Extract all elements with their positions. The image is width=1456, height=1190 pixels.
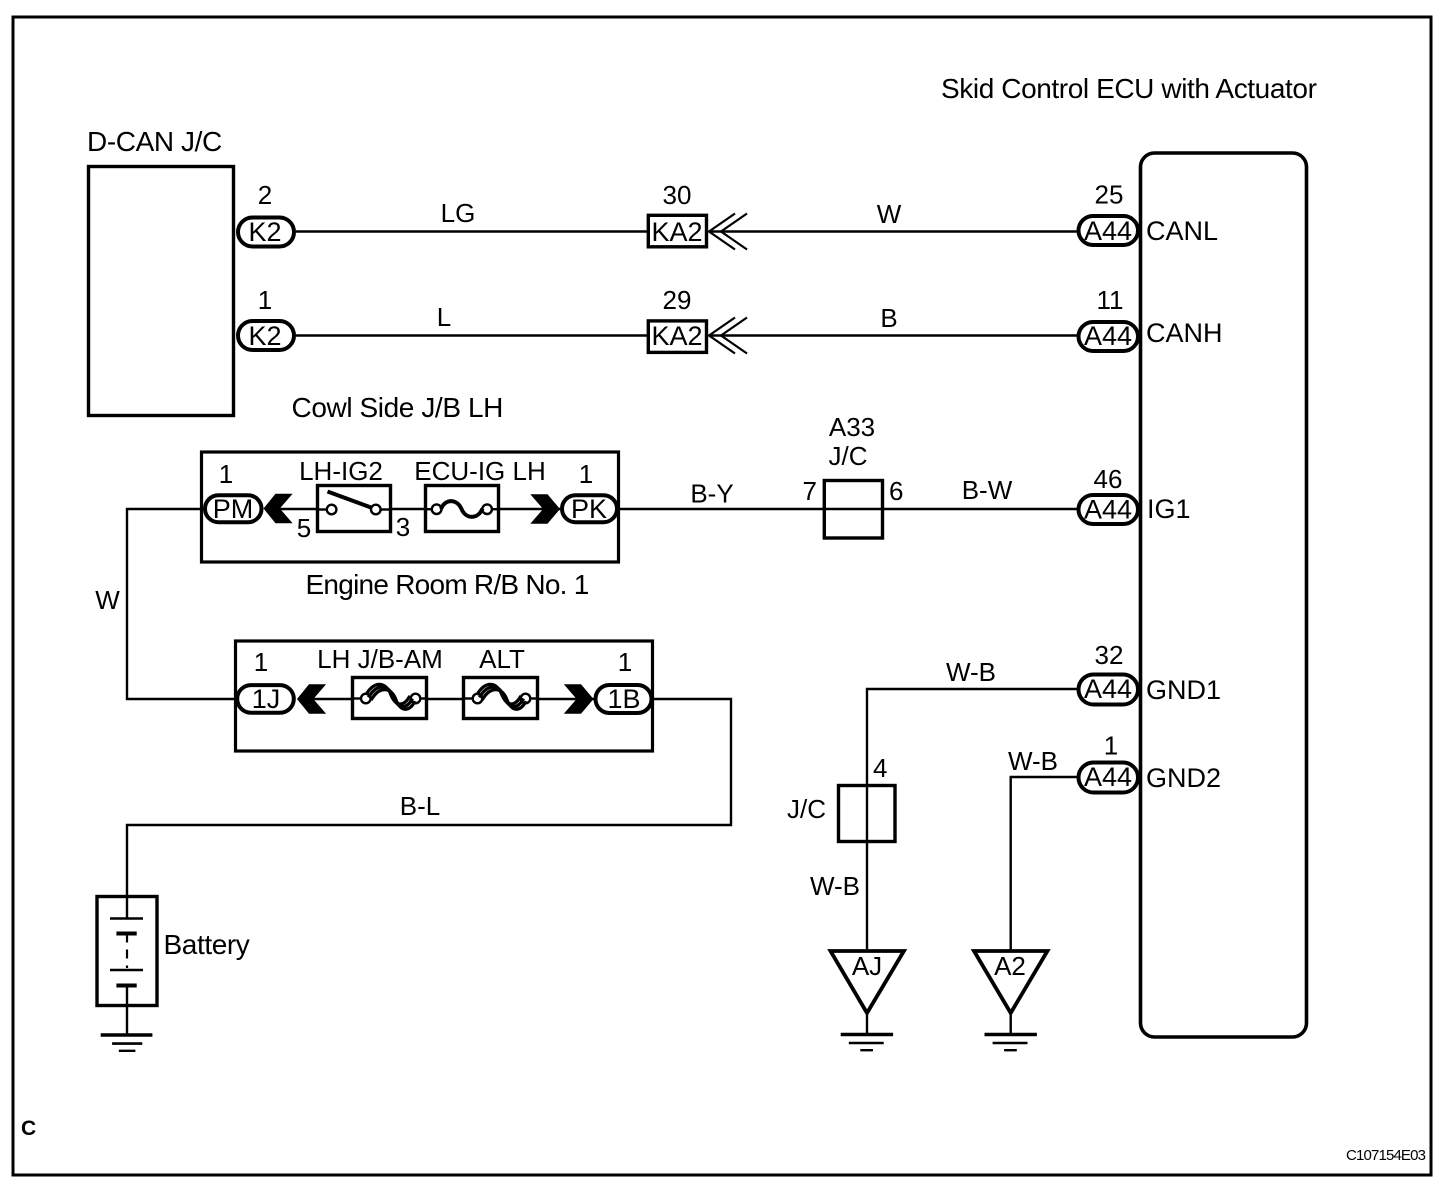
ECU U1 Skid Control ECU with Actuator — [941, 73, 1317, 1037]
svg-text:A2: A2 — [994, 951, 1026, 981]
connector KA2 pin 30 — [648, 180, 706, 247]
arrow out of J/B (right) — [530, 494, 560, 523]
svg-text:1: 1 — [1104, 731, 1118, 761]
battery BAT — [97, 896, 250, 1006]
svg-text:2: 2 — [258, 180, 272, 210]
svg-text:A44: A44 — [1084, 762, 1132, 792]
svg-text:KA2: KA2 — [651, 217, 702, 247]
junction block Cowl Side J/B LH — [202, 392, 619, 562]
svg-text:PM: PM — [213, 494, 254, 524]
ground (battery) — [101, 1035, 153, 1051]
svg-text:B-L: B-L — [400, 791, 440, 821]
svg-text:C: C — [21, 1117, 36, 1140]
svg-text:W-B: W-B — [1008, 746, 1058, 776]
svg-text:6: 6 — [889, 476, 903, 506]
svg-text:W: W — [95, 585, 120, 615]
svg-text:1J: 1J — [252, 684, 281, 714]
svg-text:11: 11 — [1097, 285, 1124, 315]
svg-text:A44: A44 — [1084, 495, 1132, 525]
svg-text:A44: A44 — [1084, 674, 1132, 704]
connector A44 pin 11 — [1079, 285, 1139, 351]
svg-text:LG: LG — [441, 198, 476, 228]
svg-text:IG1: IG1 — [1147, 494, 1191, 524]
svg-text:LH J/B-AM: LH J/B-AM — [317, 644, 443, 674]
svg-text:Cowl Side J/B LH: Cowl Side J/B LH — [292, 392, 503, 423]
svg-text:K2: K2 — [248, 321, 281, 351]
wire W-B from A44-1 to A2 ground — [1008, 746, 1077, 951]
svg-text:1: 1 — [219, 459, 233, 489]
connector 1B pin 1 — [596, 647, 652, 714]
wire B-Y from PK to A33 J/C — [618, 479, 824, 510]
svg-text:ECU-IG LH: ECU-IG LH — [414, 456, 545, 486]
svg-text:KA2: KA2 — [651, 321, 702, 351]
connector PK pin 1 — [562, 459, 617, 524]
svg-text:29: 29 — [663, 285, 692, 315]
connector KA2 pin 29 — [648, 285, 706, 352]
svg-text:Battery: Battery — [164, 929, 250, 960]
ground point AJ — [831, 951, 904, 1050]
wire W-B from J/C to AJ ground — [810, 843, 867, 951]
wire inside J/B row 1 — [280, 508, 560, 510]
svg-text:W-B: W-B — [810, 871, 860, 901]
svg-text:AJ: AJ — [852, 951, 882, 981]
svg-text:B-Y: B-Y — [690, 479, 733, 509]
svg-text:GND2: GND2 — [1146, 763, 1221, 793]
connector A44 pin 32 — [1079, 640, 1139, 705]
svg-text:ALT: ALT — [479, 644, 525, 674]
ground point A2 — [974, 951, 1047, 1050]
svg-text:5: 5 — [297, 513, 311, 543]
connector A44 pin 46 — [1079, 464, 1139, 525]
svg-text:7: 7 — [803, 476, 817, 506]
connector PM pin 1 — [205, 459, 262, 524]
wire B-L from 1B to Battery — [127, 699, 731, 896]
svg-text:30: 30 — [663, 180, 692, 210]
svg-text:1: 1 — [258, 285, 272, 315]
svg-text:J/C: J/C — [829, 441, 868, 471]
svg-text:L: L — [437, 302, 451, 332]
wire battery to ground — [126, 1006, 128, 1034]
svg-text:B-W: B-W — [962, 475, 1013, 505]
svg-text:A44: A44 — [1084, 216, 1132, 246]
inline connector arrows at KA2-30 — [709, 214, 747, 250]
svg-text:K2: K2 — [248, 217, 281, 247]
arrow out of R/B (right) — [564, 684, 594, 713]
junction connector A33 J/C — [824, 412, 884, 538]
connector K2 pin 1 — [238, 285, 294, 351]
svg-text:Skid Control ECU with Actuator: Skid Control ECU with Actuator — [941, 73, 1317, 104]
connector K2 pin 2 — [238, 180, 294, 247]
relay block Engine Room R/B No. 1 — [236, 569, 653, 751]
svg-text:C107154E03: C107154E03 — [1346, 1147, 1426, 1164]
switch LH-IG2 — [299, 456, 391, 532]
svg-text:Engine Room R/B No. 1: Engine Room R/B No. 1 — [306, 569, 589, 600]
svg-text:4: 4 — [873, 753, 887, 783]
svg-text:A44: A44 — [1084, 321, 1132, 351]
svg-text:B: B — [880, 303, 897, 333]
svg-text:1: 1 — [618, 647, 632, 677]
svg-text:GND1: GND1 — [1146, 675, 1221, 705]
wire L from K2-1 to KA2-29 — [296, 302, 648, 336]
connector A44 pin 25 — [1079, 180, 1139, 247]
wire LG from K2-2 to KA2-30 — [296, 198, 648, 232]
svg-text:1: 1 — [579, 459, 593, 489]
wire inside R/B — [313, 698, 594, 700]
svg-text:1: 1 — [254, 647, 268, 677]
svg-text:W: W — [877, 199, 902, 229]
arrow into R/B (left) — [297, 684, 326, 713]
svg-text:W-B: W-B — [946, 657, 996, 687]
svg-text:PK: PK — [571, 494, 607, 524]
wire W from KA2-30 to A44-25 — [709, 199, 1078, 232]
fusible link LH J/B-AM — [317, 644, 443, 719]
svg-text:3: 3 — [396, 512, 410, 542]
connector A44 pin 1 — [1079, 731, 1139, 793]
wire B-W from A33 to A44-46 — [884, 475, 1078, 509]
svg-text:D-CAN J/C: D-CAN J/C — [87, 126, 222, 157]
arrow into J/B (left) — [264, 494, 293, 523]
inline connector arrows at KA2-29 — [709, 318, 747, 354]
svg-text:CANL: CANL — [1146, 216, 1218, 246]
svg-text:A33: A33 — [829, 412, 875, 442]
connector 1J pin 1 — [237, 647, 294, 714]
svg-text:LH-IG2: LH-IG2 — [299, 456, 383, 486]
wire W from PM to 1J — [95, 509, 235, 699]
svg-text:25: 25 — [1095, 180, 1124, 210]
wire B from KA2-29 to A44-11 — [709, 303, 1078, 336]
junction connector J/C pin 4 — [787, 753, 895, 843]
fusible link ALT — [463, 644, 538, 719]
fuse ECU-IG LH — [414, 456, 545, 532]
wire W-B from A44-32 to J/C — [867, 657, 1077, 784]
junction block D-CAN J/C — [87, 126, 234, 416]
svg-text:1B: 1B — [607, 684, 640, 714]
svg-text:32: 32 — [1095, 640, 1124, 670]
svg-text:J/C: J/C — [787, 794, 826, 824]
svg-text:CANH: CANH — [1146, 318, 1223, 348]
svg-text:46: 46 — [1094, 464, 1123, 494]
